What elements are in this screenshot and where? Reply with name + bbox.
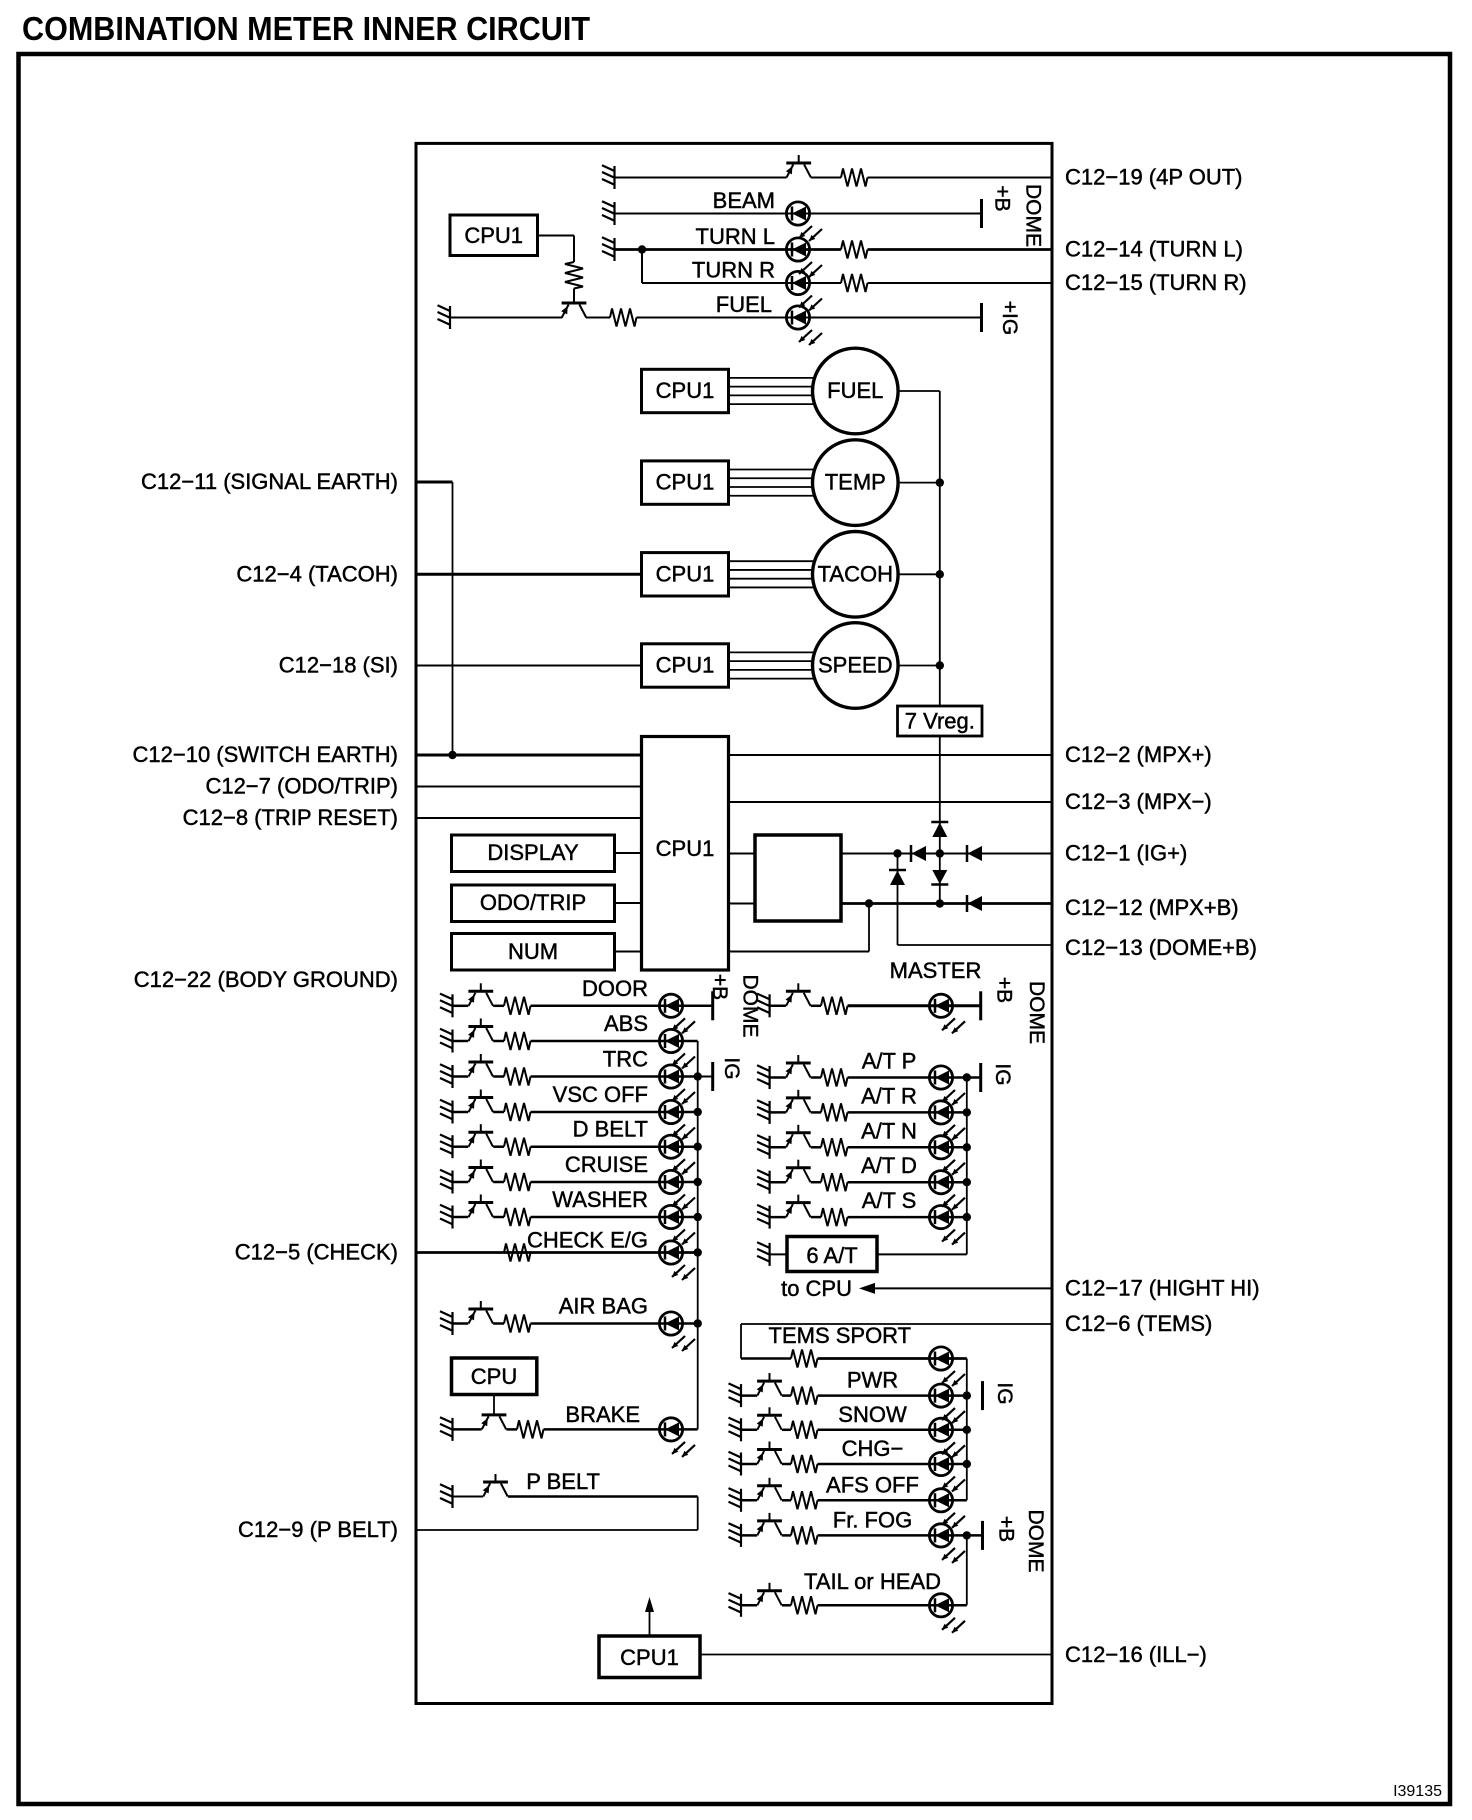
svg-text:A/T S: A/T S [862, 1188, 917, 1213]
svg-text:SPEED: SPEED [818, 653, 893, 678]
svg-text:C12−2 (MPX+): C12−2 (MPX+) [1065, 742, 1212, 767]
svg-text:AIR BAG: AIR BAG [559, 1294, 648, 1319]
svg-text:CPU1: CPU1 [464, 223, 523, 248]
svg-text:DOOR: DOOR [582, 976, 648, 1001]
svg-text:FUEL: FUEL [827, 378, 883, 403]
svg-text:+B: +B [708, 974, 731, 1000]
svg-text:AFS OFF: AFS OFF [826, 1472, 919, 1497]
svg-text:+B: +B [991, 185, 1014, 211]
svg-text:IG: IG [993, 1382, 1016, 1404]
svg-text:C12−13 (DOME+B): C12−13 (DOME+B) [1065, 935, 1257, 960]
svg-text:7 Vreg.: 7 Vreg. [905, 709, 975, 734]
svg-text:C12−5 (CHECK): C12−5 (CHECK) [235, 1240, 398, 1265]
svg-text:CPU1: CPU1 [620, 1645, 679, 1670]
svg-text:C12−9 (P BELT): C12−9 (P BELT) [238, 1517, 398, 1542]
svg-text:A/T D: A/T D [861, 1153, 917, 1178]
svg-text:to CPU: to CPU [781, 1276, 852, 1301]
svg-text:TURN L: TURN L [696, 224, 775, 249]
svg-text:I39135: I39135 [1393, 1783, 1442, 1800]
svg-text:P BELT: P BELT [526, 1469, 600, 1494]
svg-text:C12−22 (BODY GROUND): C12−22 (BODY GROUND) [134, 967, 398, 992]
svg-text:C12−14 (TURN L): C12−14 (TURN L) [1065, 237, 1243, 262]
svg-text:DISPLAY: DISPLAY [487, 840, 579, 865]
svg-text:DOME: DOME [1022, 184, 1045, 247]
svg-text:C12−12 (MPX+B): C12−12 (MPX+B) [1065, 895, 1239, 920]
svg-text:SNOW: SNOW [838, 1402, 907, 1427]
svg-text:TURN R: TURN R [692, 258, 775, 283]
svg-text:TEMP: TEMP [825, 470, 886, 495]
svg-text:C12−1 (IG+): C12−1 (IG+) [1065, 841, 1187, 866]
svg-text:C12−6 (TEMS): C12−6 (TEMS) [1065, 1311, 1212, 1336]
svg-text:6 A/T: 6 A/T [806, 1243, 857, 1268]
svg-text:TACOH: TACOH [818, 561, 893, 586]
svg-text:DOME: DOME [1024, 1510, 1047, 1573]
svg-text:CPU1: CPU1 [656, 836, 715, 861]
svg-text:PWR: PWR [847, 1368, 898, 1393]
svg-text:CPU1: CPU1 [656, 470, 715, 495]
svg-text:C12−18 (SI): C12−18 (SI) [279, 653, 398, 678]
svg-text:ABS: ABS [604, 1011, 648, 1036]
svg-text:C12−16 (ILL−): C12−16 (ILL−) [1065, 1642, 1207, 1667]
svg-text:C12−11 (SIGNAL EARTH): C12−11 (SIGNAL EARTH) [141, 469, 398, 494]
svg-text:A/T R: A/T R [861, 1083, 917, 1108]
svg-text:NUM: NUM [508, 939, 558, 964]
svg-text:TRC: TRC [603, 1047, 648, 1072]
svg-text:IG: IG [720, 1057, 743, 1079]
svg-text:D BELT: D BELT [573, 1117, 648, 1142]
svg-text:+B: +B [995, 1516, 1018, 1542]
svg-text:ODO/TRIP: ODO/TRIP [480, 890, 586, 915]
svg-text:C12−8 (TRIP RESET): C12−8 (TRIP RESET) [183, 805, 398, 830]
svg-text:C12−7 (ODO/TRIP): C12−7 (ODO/TRIP) [205, 774, 398, 799]
svg-text:C12−15 (TURN R): C12−15 (TURN R) [1065, 270, 1247, 295]
svg-text:+B: +B [993, 977, 1016, 1003]
svg-text:CHG−: CHG− [842, 1436, 904, 1461]
svg-text:CHECK E/G: CHECK E/G [527, 1228, 648, 1253]
svg-text:CPU1: CPU1 [656, 653, 715, 678]
svg-text:BEAM: BEAM [713, 188, 775, 213]
svg-text:VSC OFF: VSC OFF [553, 1082, 648, 1107]
svg-text:C12−3 (MPX−): C12−3 (MPX−) [1065, 789, 1212, 814]
svg-text:WASHER: WASHER [552, 1187, 648, 1212]
svg-text:C12−10 (SWITCH EARTH): C12−10 (SWITCH EARTH) [133, 742, 398, 767]
svg-text:CPU: CPU [471, 1364, 517, 1389]
svg-text:MASTER: MASTER [890, 958, 982, 983]
svg-text:C12−4 (TACOH): C12−4 (TACOH) [236, 561, 398, 586]
svg-text:COMBINATION METER INNER CIRCUI: COMBINATION METER INNER CIRCUIT [22, 11, 590, 48]
svg-text:C12−19 (4P OUT): C12−19 (4P OUT) [1065, 165, 1243, 190]
svg-text:FUEL: FUEL [716, 292, 772, 317]
svg-text:C12−17 (HIGHT HI): C12−17 (HIGHT HI) [1065, 1275, 1260, 1300]
svg-text:CRUISE: CRUISE [565, 1152, 648, 1177]
svg-text:DOME: DOME [739, 975, 762, 1038]
svg-text:DOME: DOME [1025, 981, 1048, 1044]
svg-text:BRAKE: BRAKE [565, 1402, 640, 1427]
svg-text:CPU1: CPU1 [656, 378, 715, 403]
svg-text:Fr. FOG: Fr. FOG [833, 1507, 912, 1532]
svg-text:A/T P: A/T P [862, 1049, 917, 1074]
svg-text:TEMS SPORT: TEMS SPORT [769, 1323, 912, 1348]
svg-text:A/T N: A/T N [861, 1118, 917, 1143]
svg-text:IG: IG [991, 1063, 1014, 1085]
svg-text:+IG: +IG [998, 301, 1021, 335]
svg-text:CPU1: CPU1 [656, 561, 715, 586]
svg-text:TAIL or HEAD: TAIL or HEAD [804, 1569, 941, 1594]
